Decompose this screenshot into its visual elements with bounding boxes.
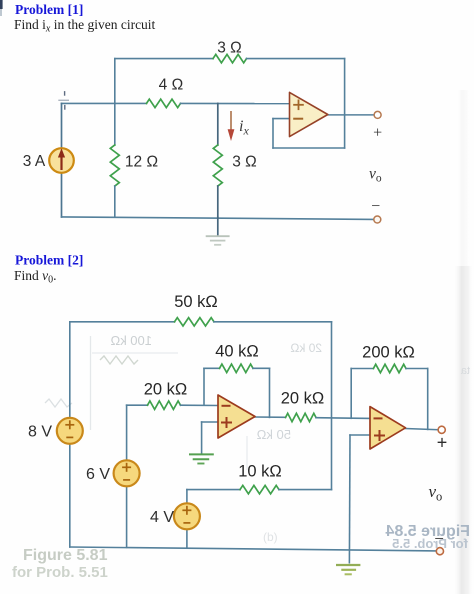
wire: 40k feedback left vertical (203, 368, 205, 405)
resistor R 40k (220, 364, 254, 372)
svg-text:+: + (437, 433, 448, 453)
wire: op-amp feedback, minus pin leftward (273, 118, 290, 120)
svg-text:Problem [1]: Problem [1] (15, 2, 83, 17)
wire: 20k input wire left segment (127, 404, 148, 406)
op-amp U1 plus sign (293, 104, 304, 106)
wire: op-amp B plus vertical down to bottom rail and ground (348, 435, 351, 563)
op-amp B (370, 407, 406, 449)
wire: left vertical above source (61, 103, 63, 148)
svg-text:20 kΩ: 20 kΩ (144, 381, 188, 399)
wire: long vertical from 50k down to summing node and 10k (331, 322, 333, 490)
svg-text:3 Ω: 3 Ω (232, 153, 257, 170)
op-amp A (218, 395, 255, 438)
wire: 200k feedback left vertical (350, 369, 352, 419)
ground under op-amp A (190, 453, 213, 455)
wire: summing node wire into op-amp B minus (316, 417, 370, 420)
wire: 6V bottom vertical (126, 486, 128, 547)
voltage source 4V (174, 503, 200, 529)
resistor R 200k (373, 364, 406, 372)
svg-text:Find ix in the given circuit: Find ix in the given circuit (14, 17, 156, 35)
wire: 40k feedback top-left segment (204, 367, 220, 369)
wire: left vertical below source (61, 173, 63, 217)
resistor R 4ohm (147, 99, 181, 107)
resistor R 20k input (148, 401, 181, 409)
voltage source 8V (57, 418, 83, 444)
ground bottom right (337, 564, 359, 566)
wire: op-amp A plus pin leftward (202, 421, 218, 423)
ground P1: stem (217, 218, 219, 236)
wire: 10k wire left segment (187, 489, 240, 491)
wire: 12ohm branch vertical lower (114, 186, 116, 217)
svg-text:10 kΩ: 10 kΩ (238, 463, 282, 481)
svg-text:50 kΩ: 50 kΩ (256, 427, 291, 442)
svg-text:8 V: 8 V (28, 424, 52, 441)
svg-text:for Prob. 5.51: for Prob. 5.51 (12, 564, 108, 581)
svg-text:200 kΩ: 200 kΩ (362, 344, 415, 362)
op-amp B minus sign (374, 417, 383, 419)
wire: 20k input wire right segment to op-amp A minus (181, 404, 219, 406)
svg-text:(b): (b) (263, 530, 278, 544)
terminal lower P1 (374, 216, 381, 223)
svg-text:+: + (373, 125, 382, 142)
ghost bleed-through text (reverse page) (45, 333, 470, 544)
wire: top wire left segment (115, 58, 213, 60)
wire: 200k feedback top-left segment (351, 368, 373, 370)
wire: op-amp output to terminal (328, 114, 374, 116)
registration tick marks at left node (64, 92, 66, 95)
resistor R 50k (175, 318, 215, 326)
wire: op-amp B plus pin leftward (350, 434, 370, 436)
wire: 10k wire right segment (279, 489, 332, 491)
svg-text:−: − (434, 529, 444, 548)
wire: P2 top wire left segment (70, 321, 175, 323)
wire: 40k feedback top-right segment (253, 367, 270, 369)
wire: feedback bottom horizontal (273, 147, 345, 149)
resistor R 20k coupling (286, 413, 317, 421)
wire: middle wire left segment (62, 102, 147, 104)
current source 3A (49, 148, 74, 173)
svg-text:6 V: 6 V (86, 466, 110, 483)
svg-text:40 kΩ: 40 kΩ (215, 343, 259, 361)
wire: 4V top vertical (186, 490, 188, 504)
op-amp U1 minus sign (293, 118, 303, 120)
resistor R 10k (240, 485, 279, 493)
svg-text:Problem [2]: Problem [2] (15, 252, 83, 267)
svg-text:4 V: 4 V (150, 509, 174, 526)
wire: 200k feedback right vertical to output (427, 369, 429, 430)
svg-text:3 Ω: 3 Ω (217, 39, 242, 56)
wire: feedback left vertical (272, 119, 274, 148)
svg-text:20 kΩ: 20 kΩ (281, 390, 325, 408)
wire: left vertical below 8V (69, 444, 71, 547)
wire: 200k feedback top-right segment (406, 368, 428, 370)
wire: bottom rail problem 1 (62, 217, 374, 220)
svg-text:20 kΩ: 20 kΩ (290, 341, 322, 355)
svg-text:Figure 5.81: Figure 5.81 (23, 547, 108, 564)
resistor R 12ohm (110, 145, 119, 186)
wire: feedback right vertical up to top wire (344, 59, 346, 148)
ground P1: bars (207, 235, 229, 237)
resistor R 3ohm vertical (213, 145, 222, 186)
current source arrow (60, 155, 62, 170)
op-amp A minus sign (222, 405, 231, 407)
op-amp A plus sign (221, 422, 232, 424)
op-amp U1 (290, 92, 328, 136)
svg-text:ta: ta (460, 365, 470, 377)
wire: op-amp A ground stem (201, 422, 203, 454)
corner scan mark top-left (0, 0, 3, 9)
op-amp B plus sign (374, 435, 385, 437)
terminal upper P1 (374, 111, 381, 118)
resistor R 3ohm top (213, 54, 247, 62)
wire: middle wire right segment to op-amp + input (181, 102, 290, 104)
svg-text:4 Ω: 4 Ω (159, 77, 184, 94)
svg-text:3 A: 3 A (23, 153, 46, 170)
wire: 3ohm branch vertical lower (217, 186, 219, 218)
svg-text:12 Ω: 12 Ω (125, 153, 158, 170)
svg-text:for Prob. 5.5: for Prob. 5.5 (392, 536, 468, 551)
wire: 40k feedback right vertical to op-amp A output (269, 368, 271, 417)
current arrow ix (230, 111, 232, 131)
wire: 3ohm branch vertical upper (217, 103, 219, 145)
wire: P2 top wire right segment (214, 321, 332, 323)
wire: mid vertical upper (top wire to middle wire) (114, 59, 116, 104)
wire: top wire right segment (247, 58, 345, 60)
wire: bottom rail P2 (70, 547, 437, 551)
svg-text:100 kΩ: 100 kΩ (110, 333, 152, 348)
wire: 6V top vertical (126, 405, 128, 460)
svg-text:50 kΩ: 50 kΩ (174, 293, 218, 311)
terminal lower P2 (436, 548, 443, 555)
wire: left vertical above 8V (69, 322, 71, 418)
wire: 4V bottom vertical (186, 529, 188, 548)
terminal upper P2 (438, 426, 445, 433)
svg-text:−: − (371, 198, 380, 215)
wire: op-amp A output segment (255, 416, 286, 418)
voltage source 6V (114, 460, 140, 486)
wire: 12ohm branch vertical upper (114, 103, 116, 145)
wire: op-amp B output to terminal (406, 429, 439, 430)
